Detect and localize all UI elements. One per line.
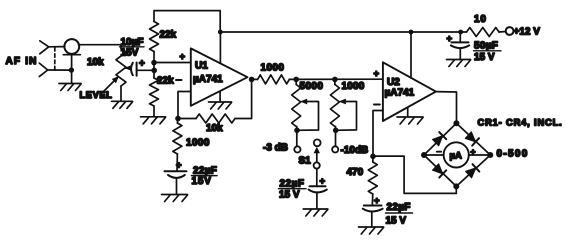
svg-text:+: + <box>374 69 380 80</box>
wire 470 to 22uF right <box>371 194 374 205</box>
svg-text:+: + <box>180 52 186 63</box>
resistor 1000 series <box>258 75 290 84</box>
svg-text:+: + <box>176 160 182 171</box>
svg-text:0-500: 0-500 <box>497 149 529 160</box>
wire jack tip to level pot <box>79 45 122 49</box>
svg-text:U2: U2 <box>387 77 400 88</box>
potentiometer 10k LEVEL body <box>116 49 126 87</box>
wire U2 output to bridge top <box>436 92 457 123</box>
node pot 5000 bottom junction <box>294 128 300 134</box>
ground 22uF left <box>162 194 188 196</box>
resistor 1000 (U1 minus to cap) <box>176 119 179 124</box>
svg-text:15 V: 15 V <box>386 216 407 227</box>
node jack sleeve junction <box>69 67 74 72</box>
jack tip circle <box>64 39 79 54</box>
wire U1 output to 1000 <box>252 78 258 80</box>
diode CR4 (bottom-right) <box>465 164 479 178</box>
wire U2 minus input to feedback node <box>373 111 383 157</box>
svg-text:µA741: µA741 <box>193 74 223 85</box>
capacitor 50uF 15V supply <box>459 32 461 42</box>
node bridge left vertex <box>421 152 427 158</box>
wire 1000 to 22uF <box>176 154 178 171</box>
wire 1000 to attenuator node <box>289 78 383 80</box>
svg-text:CR1- CR4, INCL.: CR1- CR4, INCL. <box>478 118 563 128</box>
bridge edge bottom-right <box>456 155 490 186</box>
svg-text:10k: 10k <box>206 123 223 134</box>
op-amp U1 uA741 <box>191 48 248 105</box>
wire U1 V+ pin to rail <box>219 32 221 63</box>
svg-text:+: + <box>139 59 145 70</box>
ground 22uF right <box>359 226 384 228</box>
node U1 plus input junction <box>151 60 157 66</box>
bridge edge top-left <box>424 123 456 155</box>
wire 22uF left to ground <box>176 179 178 194</box>
pot 1000 wiper arrow <box>336 102 357 131</box>
wire S1 to 22uF middle <box>316 169 318 186</box>
wire bias node to U1 plus input <box>154 62 191 64</box>
+12V terminal circle <box>506 27 514 35</box>
wire U2 V+ pin to rail <box>410 32 412 78</box>
LEVEL pot wiper diagonal arrow <box>104 80 116 92</box>
jack body dashed line <box>54 48 56 71</box>
svg-text:U1: U1 <box>195 61 208 72</box>
wire plug sleeve to junction <box>48 69 72 71</box>
svg-text:-3 dB: -3 dB <box>263 143 288 154</box>
svg-text:10: 10 <box>474 14 487 25</box>
capacitor 22uF 15V (right) <box>364 205 382 207</box>
bridge edge bottom-left <box>424 155 456 186</box>
wire 22uF right to ground <box>371 212 373 227</box>
node pot 1000 top <box>332 77 338 83</box>
node U1 output <box>249 77 255 83</box>
svg-text:µA: µA <box>450 151 462 162</box>
wire meter right terminal <box>469 154 491 156</box>
svg-text:1000: 1000 <box>186 138 210 149</box>
ground 22uF switch <box>303 208 328 210</box>
node pot 1000 bottom junction <box>333 128 339 134</box>
node U1 feedback junction <box>175 116 181 122</box>
svg-text:+: + <box>374 195 380 206</box>
resistor 22k (upper bias) <box>150 22 159 52</box>
svg-text:-10dB: -10dB <box>341 145 369 156</box>
svg-text:15 V: 15 V <box>474 52 495 63</box>
node bridge bottom vertex <box>453 183 459 189</box>
diode CR2 (top-right) <box>465 131 479 145</box>
wire 22k top to +12V rail corner <box>154 11 220 32</box>
bridge edge top-right <box>456 123 490 155</box>
svg-text:15V: 15V <box>121 47 139 58</box>
svg-text:22k: 22k <box>157 76 174 87</box>
capacitor 10uF 15V (electrolytic, horizontal) <box>131 63 133 75</box>
wire pot 5000 bottom to -3dB contact <box>296 127 298 147</box>
potentiometer 1000 body <box>334 79 336 84</box>
svg-text:µA741: µA741 <box>385 88 415 99</box>
pot wiper arrow to capacitor <box>125 67 130 69</box>
wire feedback node to 10k <box>178 118 196 120</box>
potentiometer 5000 body <box>295 79 297 84</box>
switch S1 upper contact <box>314 139 321 146</box>
svg-text:AF IN: AF IN <box>6 56 38 67</box>
meter minus mark <box>437 151 441 153</box>
wire 22uF switch to ground <box>316 193 318 209</box>
wire 10k to U1 output <box>235 79 252 118</box>
wire pot 1000 bottom to -10dB contact <box>335 127 337 147</box>
wire 10uF to bias node <box>137 69 154 71</box>
svg-text:22µF: 22µF <box>280 179 305 190</box>
svg-text:50µF: 50µF <box>474 41 498 52</box>
capacitor 22uF 15V (left) <box>165 170 187 172</box>
wire meter left terminal <box>424 154 444 156</box>
capacitor 22uF 15V (switch) <box>310 185 326 187</box>
node U2 V+ rail junction <box>409 30 414 35</box>
node 50uF junction <box>458 30 463 35</box>
U2 minus input mark <box>374 104 380 106</box>
meter M1 microammeter <box>444 142 469 167</box>
wire jack frame to ground <box>71 55 73 84</box>
svg-text:5000: 5000 <box>300 81 324 92</box>
input plug sleeve contact (bottom arrow) <box>39 63 47 77</box>
wire 50uF to ground <box>459 49 461 60</box>
jack frame bar under circle <box>63 54 80 56</box>
svg-text:15V: 15V <box>192 176 212 187</box>
svg-text:1000: 1000 <box>342 81 365 92</box>
wire 22k to input node <box>153 52 155 79</box>
resistor 10k feedback <box>196 114 235 123</box>
+12V supply rail <box>220 31 461 33</box>
svg-text:S1: S1 <box>299 156 312 167</box>
node U2 feedback junction <box>370 154 376 160</box>
wire bridge bottom stem <box>455 186 457 193</box>
wire U1 minus input <box>178 92 191 119</box>
ground jack <box>59 83 81 85</box>
node U1 V+ rail junction <box>218 30 223 35</box>
diode CR1 (top-left) <box>432 132 446 146</box>
ground 50uF <box>447 59 471 61</box>
ground U1 <box>209 101 232 103</box>
switch contact -3dB <box>294 146 300 152</box>
svg-text:+: + <box>447 33 453 44</box>
pot 5000 wiper arrow <box>297 102 319 131</box>
diode CR3 (bottom-left) <box>432 163 446 177</box>
wire pot bottom to ground <box>120 86 122 101</box>
svg-text:22µF: 22µF <box>387 202 411 213</box>
node bridge top vertex <box>453 120 459 126</box>
ground LEVEL pot <box>112 100 133 102</box>
switch S1 pole arrow <box>316 150 318 162</box>
svg-text:1000: 1000 <box>261 63 285 74</box>
wire feedback node to bridge bottom <box>373 156 456 193</box>
resistor 10 supply <box>467 28 500 37</box>
input plug tip contact (top arrow) <box>40 41 49 54</box>
switch contact -10dB <box>332 146 338 152</box>
svg-text:+: + <box>320 176 326 187</box>
U1 minus input mark <box>176 79 182 81</box>
node pot 5000 top <box>293 77 299 83</box>
op-amp U2 uA741 <box>383 62 436 121</box>
svg-text:470: 470 <box>347 167 364 178</box>
U1 ground stem <box>219 92 221 102</box>
U2 ground stem <box>407 108 409 117</box>
node 10uF junction <box>151 68 157 74</box>
svg-text:22k: 22k <box>160 30 177 41</box>
resistor 470 <box>372 156 374 162</box>
wire 22k lower to ground <box>153 106 155 117</box>
ground bias divider <box>141 116 166 118</box>
svg-text:+12 V: +12 V <box>514 27 541 38</box>
svg-text:10k: 10k <box>87 57 104 68</box>
wire plug tip to jack circle <box>49 46 64 48</box>
node bridge right vertex <box>487 152 493 158</box>
svg-text:15 V: 15 V <box>279 189 300 200</box>
svg-text:LEVEL: LEVEL <box>80 90 113 100</box>
resistor 22k (lower bias) <box>150 78 159 106</box>
svg-text:+: + <box>471 147 476 157</box>
switch S1 pole contact <box>314 162 320 168</box>
ground U2 <box>397 116 423 118</box>
